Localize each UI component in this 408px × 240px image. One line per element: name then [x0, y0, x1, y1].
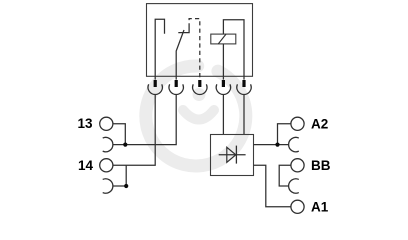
- terminal A1 screw circle: [291, 200, 304, 213]
- terminal socket 1: [148, 84, 162, 94]
- terminal socket 3: [193, 84, 207, 94]
- terminal pin 1: [154, 80, 157, 87]
- svg-text:14: 14: [78, 158, 94, 173]
- terminal BB bridge socket: [289, 179, 299, 193]
- terminal 14 screw circle: [100, 159, 113, 172]
- wire terminal 4 to diode box: [222, 94, 224, 134]
- diode V1 wire: [219, 154, 246, 156]
- terminal A2 screw circle: [291, 117, 304, 130]
- wire diode box to A1: [254, 165, 291, 207]
- svg-text:BB: BB: [311, 158, 331, 173]
- wire BB circle to BB socket: [279, 165, 291, 186]
- svg-text:A2: A2: [311, 116, 328, 131]
- terminal pin 5: [242, 80, 245, 87]
- wire terminal 1 to row of 14: [113, 94, 155, 165]
- junction dot 14: [124, 184, 128, 188]
- wire from 13 circle down to bridge row: [113, 124, 125, 145]
- relay box K1 outline: [147, 4, 253, 77]
- terminal socket 2: [169, 84, 183, 94]
- terminal pin 2: [175, 80, 178, 87]
- contact fixed lead from terminal 1: [155, 19, 164, 79]
- terminal pin 3: [198, 80, 201, 87]
- wire terminal 5 to diode box: [243, 94, 245, 134]
- contact blade: [176, 30, 184, 80]
- terminal socket 5: [237, 84, 251, 94]
- junction dot A2: [275, 143, 279, 147]
- terminal BB screw circle: [291, 159, 304, 172]
- svg-text:A1: A1: [311, 199, 329, 214]
- coil bottom wire to terminal 4: [222, 44, 224, 80]
- contact bar with hook: [178, 28, 189, 33]
- terminal socket 4: [216, 84, 230, 94]
- junction dot 13: [123, 143, 127, 147]
- terminal 13 bridge socket: [103, 137, 113, 151]
- mechanical link (dashed): [189, 19, 200, 80]
- wire diode box to A2 terminals: [254, 144, 289, 146]
- relay coil: [211, 34, 236, 44]
- terminal 14 bridge socket: [103, 179, 113, 193]
- wire terminal 2 to row of 13 bridge: [113, 94, 176, 144]
- terminal A2 bridge socket: [289, 137, 299, 151]
- coil slash: [218, 34, 226, 44]
- diode module box: [211, 135, 254, 176]
- wire up to A2 circle: [278, 124, 291, 145]
- diode V1 cathode bar: [235, 146, 237, 164]
- svg-text:13: 13: [77, 116, 93, 131]
- diode V1 triangle: [227, 147, 236, 162]
- terminal pin 4: [222, 80, 225, 87]
- wire from 14 row down to 14 bridge socket: [113, 165, 126, 186]
- coil top wire to terminal 5: [223, 20, 244, 80]
- terminal 13 screw circle: [100, 117, 113, 130]
